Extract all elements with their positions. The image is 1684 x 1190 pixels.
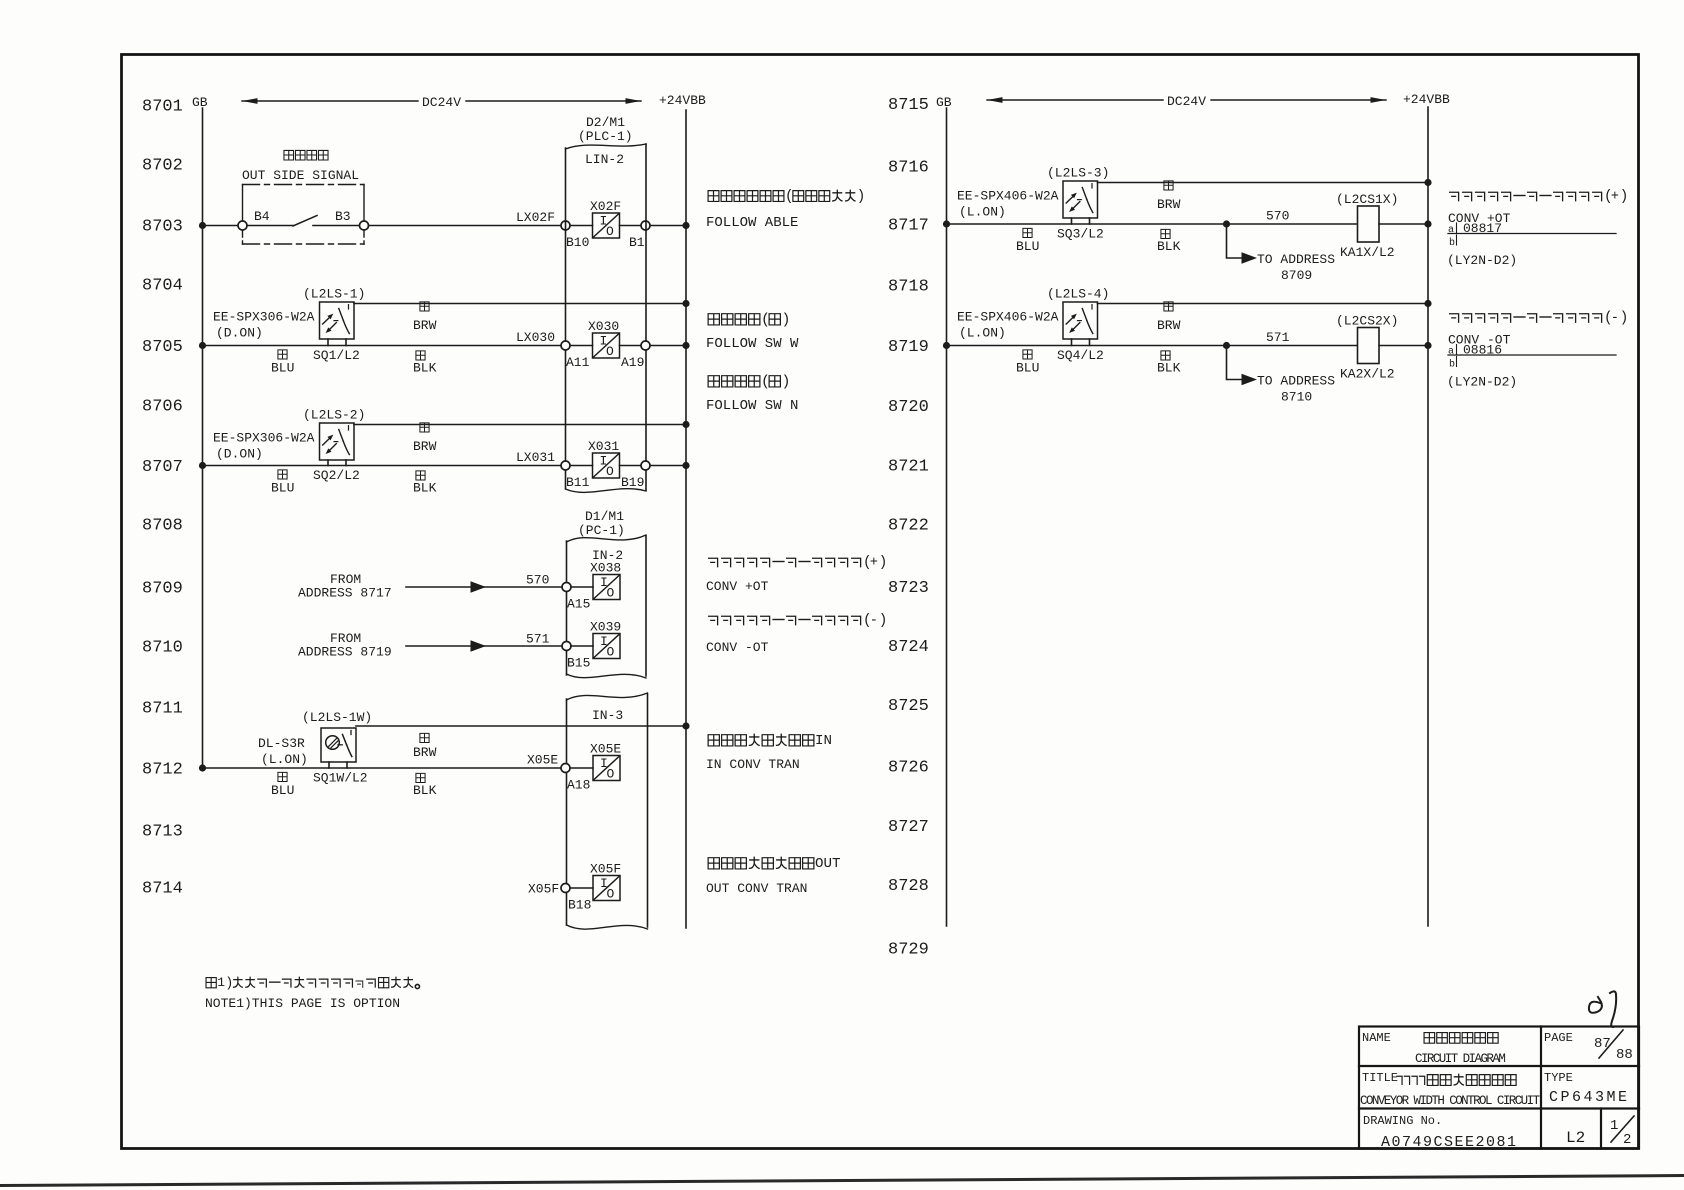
svg-text:88: 88 (1616, 1047, 1633, 1063)
svg-text:(D.ON): (D.ON) (216, 326, 263, 341)
annotation CONV +OT (L2CS1X) (1447, 189, 1628, 268)
svg-text:B18: B18 (568, 898, 591, 913)
svg-text:CONV -OT: CONV -OT (706, 640, 769, 655)
svg-text:b: b (1449, 359, 1455, 371)
svg-text:8725: 8725 (888, 697, 929, 716)
annotation CONV +OT (706, 555, 887, 594)
svg-text:8724: 8724 (888, 638, 929, 657)
svg-text:570: 570 (526, 573, 549, 588)
svg-text:A18: A18 (567, 778, 590, 793)
svg-text:B19: B19 (621, 475, 644, 490)
svg-text:(PLC-1): (PLC-1) (578, 129, 633, 144)
annotation OUT CONV TRAN (706, 856, 841, 896)
title block DRAWING No. cell (1363, 1114, 1518, 1151)
svg-text:LX031: LX031 (516, 450, 555, 465)
svg-text:8721: 8721 (888, 458, 929, 477)
svg-text:X038: X038 (590, 561, 621, 576)
svg-text:DC24V: DC24V (1167, 94, 1206, 109)
svg-text:(PC-1): (PC-1) (578, 523, 625, 538)
annotation FOLLOW SW N (706, 375, 798, 415)
svg-text:571: 571 (526, 632, 550, 647)
svg-text:(L.ON): (L.ON) (959, 205, 1006, 220)
svg-text:TITLE: TITLE (1362, 1071, 1398, 1085)
svg-text:): ) (857, 189, 866, 205)
svg-text:OUT SIDE SIGNAL: OUT SIDE SIGNAL (242, 168, 359, 183)
annotation CONV -OT (L2CS2X) (1447, 311, 1628, 390)
PLC rack D1/M1 (PC-1) block IN-2 (567, 509, 647, 678)
svg-text:8710: 8710 (142, 639, 183, 658)
wire DC24V arrow line (left half) (242, 98, 641, 104)
svg-text:L2: L2 (1566, 1129, 1585, 1147)
svg-text:SQ1/L2: SQ1/L2 (313, 348, 360, 363)
photoelectric sensor SQ1/L2 (L2LS-1) (213, 287, 437, 376)
PLC input X039 (I/O) pin B15 (562, 620, 621, 671)
svg-text:GB: GB (936, 95, 952, 110)
svg-text:(LY2N-D2): (LY2N-D2) (1447, 253, 1517, 268)
svg-text:8728: 8728 (888, 877, 929, 896)
svg-text:NOTE1)THIS PAGE IS OPTION: NOTE1)THIS PAGE IS OPTION (205, 996, 400, 1011)
note: this page is option (205, 975, 420, 1011)
svg-text:TO ADDRESS: TO ADDRESS (1257, 252, 1335, 267)
svg-text:DL-S3R: DL-S3R (258, 736, 305, 751)
svg-text:570: 570 (1266, 209, 1289, 224)
scan artifact bottom line (0, 1176, 1684, 1186)
svg-text:8712: 8712 (142, 761, 183, 780)
svg-text:D1/M1: D1/M1 (585, 509, 624, 524)
svg-text:PAGE: PAGE (1544, 1031, 1573, 1045)
svg-text:B4: B4 (254, 209, 270, 224)
wire GB rail (left half) (202, 108, 204, 768)
svg-text:FOLLOW ABLE: FOLLOW ABLE (706, 215, 798, 231)
svg-text:+: + (870, 556, 878, 571)
svg-text:GB: GB (192, 95, 208, 110)
svg-text:EE-SPX306-W2A: EE-SPX306-W2A (213, 431, 315, 446)
PLC input X02F (I/O) with pins B10,B1 (561, 199, 690, 250)
PLC input X038 (I/O) pin A15 (562, 561, 621, 612)
svg-text:BLU: BLU (1016, 361, 1039, 376)
svg-text:1: 1 (217, 975, 225, 990)
svg-text:EE-SPX406-W2A: EE-SPX406-W2A (957, 189, 1059, 204)
svg-text:8726: 8726 (888, 759, 929, 778)
wire branch SQ3/L2 to +24VBB rail (1098, 179, 1432, 186)
svg-text:8708: 8708 (142, 517, 183, 536)
annotation IN CONV TRAN (706, 733, 832, 772)
svg-text:BLU: BLU (1016, 239, 1039, 254)
svg-text:8709: 8709 (142, 580, 183, 599)
svg-text:B15: B15 (567, 656, 590, 671)
svg-text:NAME: NAME (1362, 1031, 1391, 1045)
wire FROM ADDRESS 8719 (signal 571) (298, 631, 562, 660)
svg-text:): ) (782, 375, 791, 391)
svg-text:A11: A11 (566, 355, 590, 370)
svg-text:+24VBB: +24VBB (1403, 92, 1450, 107)
svg-text:8707: 8707 (142, 458, 183, 477)
wire row 8703 to PLC (199, 222, 561, 229)
wire branch SQ4/L2 to +24VBB rail (1098, 300, 1432, 307)
PLC input X031 (I/O) pins B11,B19 (561, 439, 690, 490)
svg-text:8713: 8713 (142, 823, 183, 842)
svg-text:X05E: X05E (527, 753, 558, 768)
svg-text:8722: 8722 (888, 517, 929, 536)
photoelectric sensor SQ4/L2 (L2LS-4) (957, 287, 1181, 376)
svg-text:(D.ON): (D.ON) (216, 447, 263, 462)
wire row SQ1/L2 (199, 342, 561, 349)
PLC input X030 (I/O) pins A11,A19 (561, 319, 690, 370)
wire FROM ADDRESS 8717 (signal 570) (298, 572, 562, 601)
svg-text:D2/M1: D2/M1 (586, 115, 625, 130)
wire TO ADDRESS 8709 branch (1227, 224, 1336, 283)
wire row SQ2/L2 (199, 462, 561, 469)
PLC input X05E (I/O) pin A18 (561, 742, 621, 793)
photoelectric sensor SQ1W/L2 (L2LS-1W) DL-S3R (258, 710, 437, 798)
wire DC24V arrow line (right half) (987, 97, 1386, 103)
svg-text:X05F: X05F (528, 882, 559, 897)
relay coil KA1X/L2 (L2CS1X) (1336, 192, 1432, 260)
svg-text:): ) (782, 313, 791, 329)
svg-text:LIN-2: LIN-2 (585, 152, 624, 167)
svg-text:SQ3/L2: SQ3/L2 (1057, 227, 1104, 242)
svg-text:+24VBB: +24VBB (659, 93, 706, 108)
svg-text:BLK: BLK (413, 481, 437, 496)
svg-text:DC24V: DC24V (422, 95, 461, 110)
svg-text:8705: 8705 (142, 338, 183, 357)
svg-text:X030: X030 (588, 319, 619, 334)
svg-text:8701: 8701 (142, 98, 183, 117)
svg-text:BRW: BRW (413, 318, 437, 333)
svg-text:BLK: BLK (413, 361, 437, 376)
svg-text:BRW: BRW (1157, 197, 1181, 212)
svg-text:IN CONV TRAN: IN CONV TRAN (706, 757, 800, 772)
svg-text:X031: X031 (588, 439, 619, 454)
photoelectric sensor SQ3/L2 (L2LS-3) (957, 166, 1181, 255)
svg-text:CONVEYOR WIDTH CONTROL CIRCUIT: CONVEYOR WIDTH CONTROL CIRCUIT (1360, 1094, 1541, 1108)
svg-text:B11: B11 (566, 475, 590, 490)
svg-text:87: 87 (1594, 1036, 1611, 1052)
svg-text:B1: B1 (629, 235, 645, 250)
wire +24VBB rail (right half) (1427, 107, 1429, 926)
svg-text:a: a (1448, 347, 1454, 358)
svg-text:SQ1W/L2: SQ1W/L2 (313, 771, 368, 786)
svg-text:DRAWING No.: DRAWING No. (1363, 1114, 1442, 1128)
svg-text:IN: IN (815, 733, 832, 749)
svg-text:A0749CSEE2081: A0749CSEE2081 (1381, 1134, 1518, 1151)
svg-text:OUT CONV TRAN: OUT CONV TRAN (706, 881, 807, 896)
svg-text:B3: B3 (335, 209, 351, 224)
svg-text:8714: 8714 (142, 880, 183, 899)
handwritten check mark (1589, 991, 1616, 1027)
svg-text:CP643ME: CP643ME (1549, 1089, 1630, 1106)
svg-text:8718: 8718 (888, 278, 929, 297)
svg-text:BLU: BLU (271, 361, 294, 376)
svg-text:(L2CS1X): (L2CS1X) (1336, 192, 1398, 207)
svg-text:(L2LS-2): (L2LS-2) (303, 408, 365, 423)
svg-text:(L2LS-1W): (L2LS-1W) (302, 710, 372, 725)
svg-text:X039: X039 (590, 620, 621, 635)
title block TITLE cell (1360, 1071, 1541, 1108)
svg-text:(L2LS-1): (L2LS-1) (303, 287, 365, 302)
annotation FOLLOW SW W (706, 313, 799, 353)
svg-text:571: 571 (1266, 330, 1290, 345)
svg-text:-: - (870, 614, 878, 629)
svg-text:BRW: BRW (413, 745, 437, 760)
svg-text:8720: 8720 (888, 398, 929, 417)
wire row SQ3/L2 with junction (943, 220, 1357, 227)
svg-text:8723: 8723 (888, 579, 929, 598)
svg-text:KA2X/L2: KA2X/L2 (1340, 367, 1395, 382)
svg-text:8704: 8704 (142, 277, 183, 296)
svg-text:BRW: BRW (413, 439, 437, 454)
svg-text:8717: 8717 (888, 217, 929, 236)
svg-text:): ) (879, 613, 888, 629)
title block TYPE cell CP643ME (1544, 1071, 1630, 1106)
svg-text:OUT: OUT (815, 856, 841, 872)
wire GB rail (right half) (946, 108, 948, 926)
svg-text:8703: 8703 (142, 218, 183, 237)
wire +24VBB rail (left half) (685, 110, 687, 928)
svg-text:IN-3: IN-3 (592, 708, 623, 723)
wire TO ADDRESS 8710 branch (1227, 346, 1336, 405)
svg-text:8715: 8715 (888, 96, 929, 115)
svg-text:(L.ON): (L.ON) (261, 752, 308, 767)
title block (1359, 1027, 1639, 1149)
svg-text:8719: 8719 (888, 338, 929, 357)
relay coil KA2X/L2 (L2CS2X) (1336, 314, 1432, 382)
svg-text:X05E: X05E (590, 742, 621, 757)
svg-text:ADDRESS 8719: ADDRESS 8719 (298, 645, 392, 660)
title block PAGE cell 87/88 (1544, 1030, 1633, 1063)
PLC input X05F (I/O) pin B18 (561, 862, 621, 913)
svg-text:8709: 8709 (1281, 268, 1312, 283)
svg-text:8710: 8710 (1281, 390, 1312, 405)
wire row SQ4/L2 with junction (943, 342, 1357, 349)
svg-text:FOLLOW SW W: FOLLOW SW W (706, 336, 799, 352)
svg-text:(L2LS-3): (L2LS-3) (1047, 166, 1109, 181)
svg-text:-: - (1611, 311, 1619, 326)
svg-text:BLU: BLU (271, 481, 294, 496)
annotation CONV -OT (706, 613, 887, 655)
svg-text:(LY2N-D2): (LY2N-D2) (1447, 375, 1517, 390)
svg-text:+: + (1611, 190, 1619, 205)
svg-text:): ) (225, 977, 233, 992)
svg-text:TYPE: TYPE (1544, 1071, 1573, 1085)
svg-text:BLU: BLU (271, 783, 294, 798)
svg-text:2: 2 (1623, 1132, 1631, 1148)
wire branch SQ1W to +24VBB rail (356, 722, 690, 729)
svg-text:CIRCUIT DIAGRAM: CIRCUIT DIAGRAM (1415, 1052, 1505, 1066)
svg-text:BLK: BLK (1157, 239, 1181, 254)
svg-text:(L2LS-4): (L2LS-4) (1047, 287, 1109, 302)
title block sheet fraction 1/2 (1610, 1116, 1634, 1148)
svg-text:a: a (1448, 225, 1454, 236)
wire row 8712 (199, 764, 561, 771)
photoelectric sensor SQ2/L2 (L2LS-2) (213, 408, 437, 496)
svg-text:EE-SPX306-W2A: EE-SPX306-W2A (213, 310, 315, 325)
annotation FOLLOW ABLE (706, 189, 865, 231)
svg-text:(L.ON): (L.ON) (959, 326, 1006, 341)
svg-text:8727: 8727 (888, 818, 929, 837)
svg-text:BLK: BLK (1157, 361, 1181, 376)
svg-text:SQ4/L2: SQ4/L2 (1057, 348, 1104, 363)
svg-text:KA1X/L2: KA1X/L2 (1340, 245, 1395, 260)
svg-text:b: b (1449, 237, 1455, 249)
PLC block IN-3 (567, 693, 648, 929)
svg-text:A15: A15 (567, 597, 590, 612)
svg-text:B10: B10 (566, 235, 589, 250)
title block NAME cell (1362, 1031, 1505, 1066)
svg-text:BRW: BRW (1157, 318, 1181, 333)
svg-text:8706: 8706 (142, 398, 183, 417)
svg-text:): ) (1620, 311, 1629, 327)
svg-text:ADDRESS 8717: ADDRESS 8717 (298, 586, 392, 601)
switch B4-B3 OUT SIDE SIGNAL (dashed enclosure) (238, 150, 369, 244)
svg-text:): ) (879, 555, 888, 571)
svg-text:EE-SPX406-W2A: EE-SPX406-W2A (957, 310, 1059, 325)
svg-text:): ) (1620, 189, 1629, 205)
svg-text:X02F: X02F (590, 199, 621, 214)
svg-text:BLK: BLK (413, 783, 437, 798)
svg-text:TO ADDRESS: TO ADDRESS (1257, 374, 1335, 389)
svg-text:1: 1 (1610, 1118, 1618, 1134)
svg-text:LX02F: LX02F (516, 210, 555, 225)
svg-text:A19: A19 (621, 355, 644, 370)
svg-text:8729: 8729 (888, 941, 929, 960)
svg-text:8702: 8702 (142, 157, 183, 176)
svg-text:8716: 8716 (888, 159, 929, 178)
svg-text:FOLLOW SW N: FOLLOW SW N (706, 398, 798, 414)
svg-text:CONV +OT: CONV +OT (706, 579, 769, 594)
svg-text:SQ2/L2: SQ2/L2 (313, 468, 360, 483)
svg-text:(L2CS2X): (L2CS2X) (1336, 314, 1398, 329)
svg-text:8711: 8711 (142, 700, 183, 719)
PLC rack D2/M1 (PLC-1) block LIN-2 (566, 115, 647, 492)
svg-text:LX030: LX030 (516, 330, 555, 345)
wire branch SQ1/L2 to +24VBB rail (354, 300, 690, 307)
wire branch SQ2/L2 to +24VBB rail (354, 421, 690, 428)
svg-text:X05F: X05F (590, 862, 621, 877)
